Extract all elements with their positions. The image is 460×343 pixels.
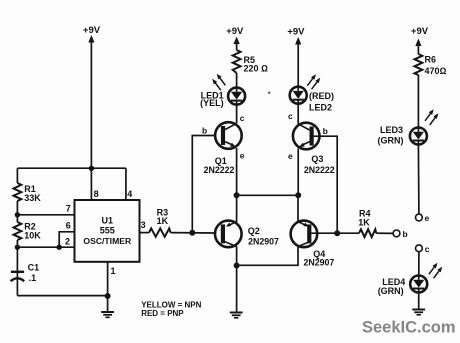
wire LED1 to Q1 collector bbox=[236, 105, 238, 124]
label e Q3 bbox=[288, 151, 293, 161]
pin 7 label bbox=[66, 204, 71, 214]
node junction rung right bbox=[295, 192, 301, 198]
svg-text:b: b bbox=[202, 126, 207, 136]
svg-text:OSC/TIMER: OSC/TIMER bbox=[83, 236, 132, 246]
wire R3 to Q2 base bbox=[171, 232, 215, 234]
svg-text:RED = PNP: RED = PNP bbox=[141, 309, 184, 318]
svg-text:220 Ω: 220 Ω bbox=[244, 64, 269, 74]
svg-text:2N2907: 2N2907 bbox=[248, 237, 279, 247]
power +9V supply 3 (above LED2) bbox=[287, 27, 305, 86]
wire LED2 to Q3 collector bbox=[297, 104, 299, 124]
svg-text:b: b bbox=[323, 126, 328, 136]
terminal b open circle bbox=[393, 229, 408, 239]
wire pin3 to R3 bbox=[140, 232, 150, 234]
svg-text:+9V: +9V bbox=[411, 26, 429, 37]
svg-text:10K: 10K bbox=[24, 230, 41, 240]
legend text RED = PNP bbox=[141, 309, 184, 318]
resistor R4 1K bbox=[358, 209, 376, 238]
wire Q1 emitter down to rung bbox=[236, 148, 238, 195]
svg-text:C1: C1 bbox=[28, 263, 40, 273]
node junction b-node bbox=[334, 230, 340, 236]
transistor Q3 2N2222 (mirrored) bbox=[293, 123, 335, 175]
resistor R1 33K bbox=[14, 183, 42, 203]
node junction pin7 bbox=[15, 212, 20, 217]
power +9V supply 2 (above R5) bbox=[226, 26, 244, 50]
wire R1 to R2 bbox=[16, 201, 18, 222]
node junction R3/Q1 base bbox=[189, 230, 195, 236]
svg-text:Q3: Q3 bbox=[311, 154, 323, 164]
svg-text:2: 2 bbox=[65, 237, 70, 247]
resistor R6 470 ohm bbox=[415, 54, 447, 76]
svg-text:(GRN): (GRN) bbox=[378, 136, 404, 146]
terminal e open circle bbox=[416, 213, 430, 223]
label b Q1 bbox=[202, 126, 207, 136]
node junction pin2 bbox=[15, 245, 20, 250]
wire R6 to LED3 bbox=[417, 75, 419, 127]
wire top-left horizontal rail bbox=[17, 167, 126, 169]
svg-text:1: 1 bbox=[111, 266, 116, 276]
pin 3 label bbox=[141, 220, 146, 230]
label c Q1 bbox=[240, 113, 245, 123]
pin 6 label bbox=[66, 221, 71, 231]
svg-text:6: 6 bbox=[66, 221, 71, 231]
svg-text:c: c bbox=[240, 113, 245, 123]
svg-text:2N2907: 2N2907 bbox=[303, 257, 334, 267]
wire pin8 vertical bbox=[90, 168, 92, 200]
pin 8 label bbox=[94, 189, 99, 199]
svg-text:+9V: +9V bbox=[287, 27, 305, 38]
ground under LED4 bbox=[412, 310, 425, 315]
svg-text:+9V: +9V bbox=[83, 25, 101, 36]
node junction Q2 collector bbox=[234, 263, 240, 269]
power +9V supply 4 (right) bbox=[411, 26, 429, 54]
svg-text:4: 4 bbox=[127, 189, 132, 199]
svg-text:LED2: LED2 bbox=[309, 102, 332, 112]
svg-text:2N2222: 2N2222 bbox=[204, 165, 235, 175]
label e Q1 bbox=[240, 151, 245, 161]
svg-text:+9V: +9V bbox=[226, 26, 244, 37]
wire LED4 to ground bbox=[418, 293, 420, 309]
watermark SeekIC.com bbox=[362, 319, 456, 337]
svg-text:33K: 33K bbox=[24, 193, 41, 203]
svg-text:c: c bbox=[288, 111, 293, 121]
op-amp U1 555 OSC/TIMER box bbox=[75, 200, 140, 262]
svg-text:c: c bbox=[425, 244, 430, 254]
wire C1 down and bottom-left horizontal to ground node bbox=[17, 295, 107, 297]
pin 4 label bbox=[127, 189, 132, 199]
svg-text:7: 7 bbox=[66, 204, 71, 214]
transistor Q1 2N2222 bbox=[204, 122, 242, 175]
transistor Q4 2N2907 (PNP mirrored) bbox=[291, 221, 335, 268]
svg-text:e: e bbox=[240, 151, 245, 161]
power +9V supply 1 (left) bbox=[83, 25, 101, 168]
wire pin2 to U1 bbox=[17, 246, 74, 248]
LED LED3 (GRN) bbox=[378, 109, 439, 145]
svg-text:1K: 1K bbox=[358, 218, 370, 228]
wire terminal c to LED4 bbox=[418, 252, 420, 275]
svg-text:e: e bbox=[288, 151, 293, 161]
svg-text:SeekIC.com: SeekIC.com bbox=[362, 319, 456, 337]
wire Q2 collector down bbox=[236, 246, 238, 311]
wire R2 to C1 bbox=[16, 240, 18, 296]
resistor R5 220 ohm bbox=[233, 50, 268, 74]
wire left vertical rail bbox=[16, 168, 18, 183]
wire LED3 to terminal e bbox=[417, 145, 420, 214]
svg-text:.1: .1 bbox=[29, 273, 37, 283]
label b Q3 bbox=[323, 126, 328, 136]
svg-text:U1: U1 bbox=[102, 216, 114, 226]
svg-text:LED3: LED3 bbox=[380, 125, 403, 135]
pin 2 label bbox=[65, 237, 70, 247]
node junction pin1/ground bbox=[105, 293, 111, 299]
svg-text:(RED): (RED) bbox=[309, 91, 334, 101]
transistor Q2 2N2907 (PNP) bbox=[215, 221, 279, 248]
svg-text:555: 555 bbox=[100, 225, 115, 235]
wire node up to Q1 base bbox=[192, 136, 214, 233]
wire Q3 base to b-node bbox=[314, 136, 338, 233]
ground under pin1 bbox=[101, 312, 114, 317]
LED LED1 (YEL) bbox=[200, 74, 245, 108]
wire bottom rung Q2-Q4 collectors bbox=[237, 246, 298, 265]
node junction rung left bbox=[234, 192, 240, 198]
wire Q2 emitter up to rung bbox=[236, 195, 238, 222]
capacitor C1 .1 bbox=[11, 263, 40, 283]
LED LED4 (GRN) bbox=[378, 263, 443, 296]
wire R5 to LED1 bbox=[236, 73, 238, 86]
wire emitter rung horizontal bbox=[237, 194, 299, 196]
node junction +9V/pin8 bbox=[89, 166, 94, 171]
terminal c open circle bbox=[416, 244, 430, 254]
svg-text:Q2: Q2 bbox=[248, 226, 260, 236]
wire pin1 vertical bbox=[107, 262, 109, 311]
pin 1 label bbox=[111, 266, 116, 276]
svg-text:470Ω: 470Ω bbox=[425, 66, 447, 76]
svg-text:1K: 1K bbox=[157, 216, 169, 226]
LED LED2 (RED) bbox=[290, 74, 334, 112]
node junction pin6/pin2 bbox=[57, 245, 62, 250]
legend text YELLOW = NPN bbox=[141, 301, 201, 310]
svg-text:b: b bbox=[403, 229, 408, 239]
resistor R2 10K bbox=[14, 222, 42, 241]
svg-text:R6: R6 bbox=[425, 55, 437, 65]
svg-text:e: e bbox=[425, 213, 430, 223]
wire Q4 base to b-node bbox=[311, 232, 337, 234]
ground under Q2/Q4 bbox=[230, 313, 243, 318]
wire Q4 emitter up to rung bbox=[297, 195, 299, 222]
svg-text:8: 8 bbox=[94, 189, 99, 199]
resistor R3 1K bbox=[149, 207, 171, 237]
svg-text:3: 3 bbox=[141, 220, 146, 230]
wire b-node to R4 bbox=[337, 232, 359, 234]
label c Q3 bbox=[288, 111, 293, 121]
wire pin6 stub to pin2 wire bbox=[59, 232, 74, 247]
svg-text:(YEL): (YEL) bbox=[200, 98, 224, 108]
scan speck artifact bbox=[268, 92, 270, 94]
wire pin7 to U1 bbox=[17, 214, 74, 216]
wire Q3 emitter down to rung bbox=[297, 149, 299, 196]
wire pin4 vertical bbox=[125, 168, 127, 200]
svg-text:2N2222: 2N2222 bbox=[304, 165, 335, 175]
wire R4 to terminal b bbox=[376, 232, 393, 234]
svg-text:(GRN): (GRN) bbox=[378, 286, 404, 296]
